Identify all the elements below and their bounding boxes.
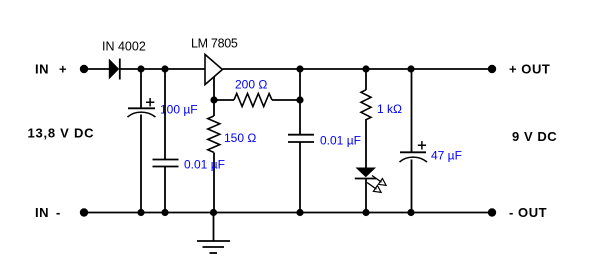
LED D2 [355,168,376,179]
terminal -OUT [488,208,496,216]
wire top rail: IN+ terminal to diode anode [84,68,110,70]
capacitor C4 47uF electrolytic [400,141,428,162]
node junction on top rail above C1 [137,65,144,72]
wire: top rail down to R3 top [365,69,367,90]
node junction bottom rail below C1 [137,209,144,216]
svg-text:-: - [56,205,61,220]
regulator U1 LM 7805 (triangle symbol) [205,54,222,84]
wire: node to R1 left [214,99,234,101]
terminal +OUT [488,65,496,73]
node junction top rail above C4 [407,65,414,72]
wire: C2 bottom plate to bottom rail [164,167,166,213]
terminal IN- [80,208,88,216]
node junction bottom rail below C2 [161,209,168,216]
svg-text:IN: IN [35,205,49,220]
capacitor C3 0.01uF [288,135,314,142]
diode D1 IN4002 [109,59,120,80]
node junction bottom rail below C3 [296,209,303,216]
wire: bottom rail to ground symbol [213,213,215,242]
svg-text:9 V DC: 9 V DC [512,129,557,144]
svg-text:IN 4002: IN 4002 [102,40,146,54]
svg-text:+: + [59,61,67,76]
resistor R2 150 ohm [208,116,220,152]
wire: node to R2 top [213,100,215,116]
node junction bottom rail below C4 [407,209,414,216]
LED light arrow 1 [372,176,386,186]
svg-text:0.01 µF: 0.01 µF [184,158,225,172]
svg-text:200 Ω: 200 Ω [235,78,267,92]
ground [197,241,230,253]
wire: R3 bottom to LED anode [365,119,367,168]
wire: diode cathode to regulator input [120,68,205,70]
wire: C4 bottom to bottom rail [411,160,413,213]
wire top rail: regulator output to +OUT terminal [222,68,492,70]
wire: top rail down to C2 top plate [164,69,166,160]
node junction top rail above R3 [362,65,369,72]
capacitor C2 0.01uF [153,160,179,167]
wire: top rail down to C1 top plate [140,69,142,108]
svg-text:+ OUT: + OUT [509,61,550,76]
node junction on top rail above C2 [161,65,168,72]
svg-text:LM 7805: LM 7805 [191,37,238,51]
terminal IN+ [80,65,88,73]
svg-text:13,8 V DC: 13,8 V DC [28,126,95,141]
wire bottom rail [84,212,492,214]
wire: LED cathode to bottom rail [365,179,367,213]
wire: R1 right to node [272,99,300,101]
resistor R1 200 ohm [234,94,272,107]
wire: top rail down through node to C3 top plate [299,69,301,135]
capacitor C1 100uF electrolytic [128,98,156,117]
svg-text:0.01 µF: 0.01 µF [320,134,361,148]
svg-text:1 kΩ: 1 kΩ [377,102,402,116]
wire: C3 bottom plate to bottom rail [299,142,301,213]
node junction top rail above C3 [296,65,303,72]
LED light arrow 2 [367,183,381,193]
svg-text:150 Ω: 150 Ω [224,131,256,145]
wire: R2 bottom to ground rail [213,153,215,213]
node junction regulator common [210,96,217,103]
svg-text:- OUT: - OUT [509,205,547,220]
wire: C1 bottom to bottom rail [140,115,142,213]
wire: regulator common pin down to node [213,77,215,100]
node junction bottom rail at ground [210,209,217,216]
resistor R3 1k ohm [361,90,371,120]
svg-text:47 µF: 47 µF [431,149,462,163]
node junction bottom rail below LED [362,209,369,216]
wire: top rail down to C4 top plate [411,69,413,152]
svg-text:IN: IN [35,61,49,76]
node junction R1/C3 [296,96,303,103]
